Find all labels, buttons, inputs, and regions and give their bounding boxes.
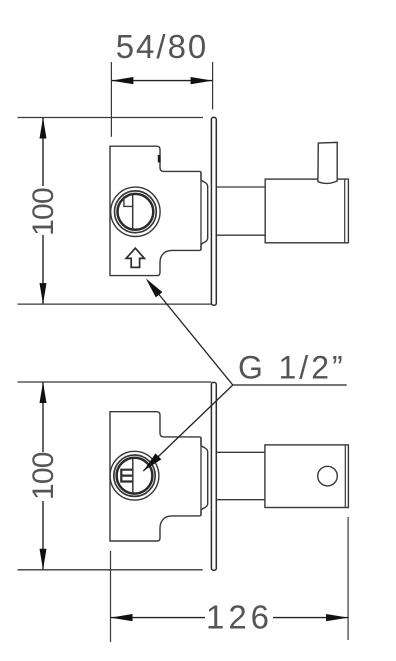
parting tick mark on upper body	[158, 155, 161, 162]
stem upper line (lower view)	[216, 451, 265, 453]
wall plate (upper view)	[211, 117, 216, 305]
svg-text:54/80: 54/80	[116, 28, 209, 65]
label G 1/2 : shoulder line	[233, 384, 347, 386]
port inner thick circle (lower view)	[117, 458, 153, 494]
dimension 100 (upper) : dimension line	[42, 118, 44, 304]
svg-text:G: G	[238, 350, 263, 386]
stem lower line (upper view)	[216, 234, 265, 236]
dimension 54/80 : left arrowhead	[111, 77, 133, 84]
stem upper line (upper view)	[216, 186, 265, 188]
dimension 100 (lower) : bottom arrowhead	[40, 549, 47, 570]
port middle circle (lower view)	[114, 455, 155, 496]
dimension 100 (upper) : text backing	[29, 186, 54, 235]
cartridge chord line (lower view)	[132, 459, 134, 493]
cartridge keyway notch (upper view)	[124, 196, 133, 206]
label G 1/2 : lower arrowhead	[143, 453, 161, 471]
dimension 126 : right extension line	[347, 517, 349, 640]
port outer circle (lower view)	[110, 451, 159, 500]
dimension 126 : right arrowhead	[326, 614, 348, 621]
label G 1/2 : leader to upper body	[148, 281, 233, 385]
label G 1/2 : upper arrowhead	[146, 278, 163, 297]
port middle circle (upper view)	[114, 191, 156, 233]
wire: bottom horizontal wall line (lower view, bottom)	[18, 569, 203, 571]
wire: top horizontal wall line (lower view, top)	[18, 381, 212, 383]
dimension 126 : left extension line	[110, 551, 112, 642]
svg-text:100: 100	[27, 188, 60, 236]
valve body (lower view)	[110, 412, 208, 541]
dimension 54/80 : dimension line	[111, 80, 212, 82]
handle cylinder (upper view)	[265, 179, 348, 243]
svg-text:126: 126	[206, 599, 273, 636]
svg-text:100: 100	[27, 452, 60, 500]
dimension 54/80 : right extension line	[212, 62, 214, 110]
cartridge chord line (upper view)	[132, 195, 134, 229]
dimension 100 (upper) : bottom arrowhead	[40, 283, 47, 304]
dimension 126 : text backing	[205, 604, 273, 631]
knob end-cap line (lower view)	[344, 445, 346, 508]
knob (lower view)	[265, 445, 349, 508]
dimension 54/80 : right arrowhead	[191, 77, 213, 84]
thread detail E-shape (lower view)	[121, 470, 133, 482]
wire: bottom horizontal wall line (upper view, bottom)	[18, 303, 212, 305]
knob face circle (lower view)	[318, 466, 338, 486]
port outer circle (upper view)	[111, 187, 160, 236]
dimension 54/80 : left extension line	[110, 62, 112, 137]
outlet up-arrow symbol (upper view)	[126, 248, 144, 267]
port inner thick circle (upper view)	[117, 194, 153, 230]
dimension 100 (lower) : dimension line	[42, 383, 44, 570]
handle lever (upper view)	[318, 142, 337, 183]
dimension 100 (lower) : top arrowhead	[40, 382, 47, 403]
handle end-cap line (upper view)	[344, 179, 346, 243]
label G 1/2 : leader to lower port	[143, 385, 233, 471]
stem lower line (lower view)	[216, 499, 265, 501]
valve body (upper view)	[110, 146, 208, 275]
dimension 126 : left arrowhead	[111, 614, 133, 621]
wire: top horizontal wall line (upper view, top)	[18, 117, 204, 119]
dimension 100 (upper) : top arrowhead	[40, 118, 47, 139]
dimension 126 : dimension line	[111, 617, 349, 619]
dimension 100 (lower) : text backing	[29, 452, 54, 501]
svg-text:1/2”: 1/2”	[279, 350, 346, 386]
lower body right edge line through gasket bulge	[200, 438, 202, 516]
upper body right edge line through gasket bulge	[200, 172, 202, 250]
wall plate (lower view)	[211, 382, 216, 570]
